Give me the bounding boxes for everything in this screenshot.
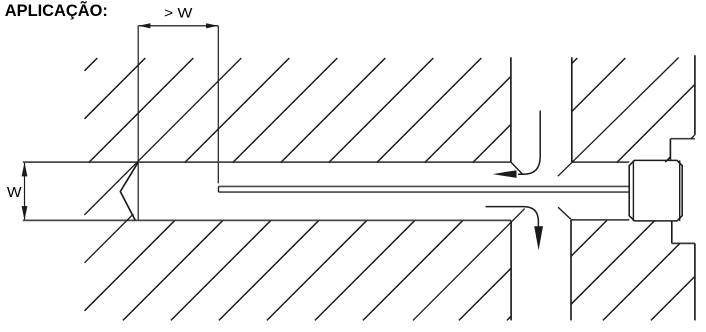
bore bottom line left bbox=[23, 219, 511, 221]
vertical channel right wall bbox=[571, 57, 573, 162]
body step top bbox=[670, 138, 695, 140]
chamfer junction top-right with hatch bbox=[558, 58, 679, 177]
vertical channel left wall bbox=[510, 57, 512, 162]
hatch upper-left block bbox=[85, 58, 511, 162]
dimension >W lines and arrows bbox=[138, 23, 218, 220]
small pilot channel bbox=[219, 186, 630, 192]
body face above plug bbox=[669, 139, 671, 161]
svg-text:> W: > W bbox=[164, 6, 192, 21]
svg-text:APLICAÇÃO:: APLICAÇÃO: bbox=[5, 0, 108, 20]
title text APLICACAO bbox=[5, 0, 108, 20]
bore top line right bbox=[572, 161, 629, 163]
hatch lower-right block bbox=[571, 220, 695, 320]
chamfer junction bottom-right bbox=[558, 207, 571, 219]
hatch lower-left block bbox=[85, 221, 512, 321]
plug collar line left bbox=[632, 160, 634, 221]
flow arrow bottom bbox=[486, 207, 543, 251]
hatch nick at top step bbox=[691, 135, 695, 139]
plug head line right bbox=[679, 160, 681, 221]
chamfer junction top-left bbox=[511, 162, 523, 174]
body outer face bottom bbox=[694, 243, 696, 320]
dimension label >W bbox=[164, 6, 192, 21]
hatch top-right block bbox=[572, 58, 695, 162]
svg-text:W: W bbox=[7, 185, 22, 201]
dimension W lines and arrows bbox=[22, 162, 28, 220]
flow arrow top bbox=[493, 111, 540, 178]
body face below plug bbox=[671, 221, 673, 244]
body step bottom bbox=[672, 242, 695, 244]
bore top line left bbox=[23, 161, 511, 163]
bottom channel right wall bbox=[570, 220, 572, 321]
hatch overshoot at cone bottom bbox=[85, 214, 134, 263]
drill cone at bore end bbox=[120, 162, 138, 220]
hatch overshoot at cone top bbox=[84, 58, 241, 215]
body outer face top bbox=[694, 55, 696, 135]
bottom channel left wall bbox=[510, 220, 512, 320]
chamfer junction bottom-left with hatch bbox=[413, 209, 525, 321]
bore bottom line right bbox=[571, 219, 629, 221]
plug body outline bbox=[629, 160, 682, 221]
dimension label W bbox=[7, 185, 22, 201]
